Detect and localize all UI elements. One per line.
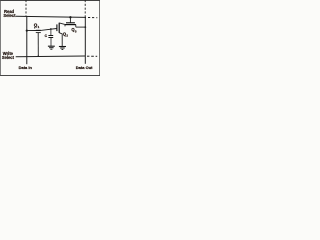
Q3 drain wire to data-out — [76, 26, 86, 28]
C top plate — [48, 35, 53, 37]
Q2 gate bar — [56, 24, 58, 31]
wire write-select row line — [16, 55, 86, 58]
Q3 drain leg — [75, 25, 77, 28]
wire data-out column — [84, 17, 86, 63]
wire data-in column continuation (dashed, above read line) — [25, 0, 27, 16]
node junction Q1 gate / write line — [38, 55, 40, 57]
Q1 channel bar — [36, 29, 41, 31]
C top lead — [50, 29, 52, 35]
wire data-in column — [26, 16, 28, 64]
border bottom — [0, 74, 100, 77]
wire data-out column continuation (dashed, above read line) — [84, 0, 86, 17]
C bottom lead — [50, 38, 52, 47]
transistor Q3 (read access) — [65, 17, 86, 27]
wire read row continuation dashes — [88, 17, 97, 19]
Q3 gate lead — [69, 17, 71, 22]
wire read-select row line — [16, 16, 86, 17]
node junction data-in / Q1 source — [26, 30, 28, 32]
Q1 gate bar — [36, 32, 41, 34]
capacitor C (storage) — [48, 29, 53, 46]
svg-text:Select: Select — [2, 55, 15, 60]
Q1 source wire — [27, 30, 36, 32]
label Q3 — [71, 27, 77, 34]
C bottom plate — [48, 37, 53, 39]
svg-text:Data Out: Data Out — [76, 65, 93, 70]
label Read Select — [3, 9, 16, 18]
svg-text:Select: Select — [3, 13, 16, 18]
Q3 gate bar — [66, 22, 75, 24]
transistor Q2 (storage) — [57, 23, 65, 47]
transistor Q1 (write access) — [27, 30, 41, 56]
ground (Q2 source) — [59, 47, 66, 50]
node junction read line / Q3 gate — [69, 16, 71, 18]
background — [0, 0, 100, 76]
ground (below capacitor) — [48, 46, 55, 49]
wire write row continuation dashes — [87, 55, 97, 57]
Q1 source tick — [34, 27, 36, 29]
node junction capacitor tap — [50, 28, 52, 30]
Q1 gate lead to write line — [37, 33, 39, 57]
label Q1 — [34, 22, 40, 29]
Q2 source wire to ground — [59, 33, 62, 47]
svg-text:Data in: Data in — [19, 65, 33, 70]
border top — [0, 0, 100, 2]
Q2 channel bar — [58, 23, 60, 33]
label Q2 — [63, 31, 69, 37]
wire storage node (Q1 drain to Q2 gate) — [41, 29, 57, 31]
Q3 channel bar — [65, 24, 76, 26]
label Write Select — [2, 51, 15, 60]
Q2 drain wire to Q3 — [59, 23, 65, 25]
border right — [98, 0, 101, 76]
node junction Q3 / data-out column — [84, 26, 86, 28]
Q3 source leg — [64, 25, 66, 27]
border left — [0, 0, 2, 76]
